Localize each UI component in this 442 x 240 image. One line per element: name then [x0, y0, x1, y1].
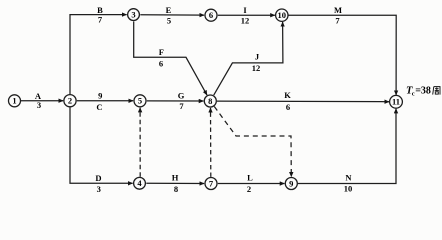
svg-text:8: 8 — [208, 96, 212, 106]
svg-text:M: M — [334, 5, 342, 15]
svg-text:N: N — [345, 173, 352, 183]
svg-text:C: C — [96, 102, 102, 112]
activity N arrow (9-11) — [298, 109, 396, 184]
activity E arrow (3-6) — [140, 14, 204, 16]
svg-text:H: H — [172, 173, 179, 183]
svg-text:10: 10 — [344, 183, 353, 193]
activity K arrow (8-11) — [217, 100, 389, 103]
svg-text:12: 12 — [252, 63, 261, 73]
dummy arrow 7-8 (dashed) — [210, 108, 212, 177]
svg-text:1: 1 — [12, 96, 16, 106]
annotation Tc=38 weeks — [406, 85, 440, 97]
dummy arrow 4-5 (dashed) — [139, 108, 141, 177]
svg-text:6: 6 — [209, 10, 213, 20]
dummy arrow 8-9 (dashed) — [214, 107, 291, 177]
node 10 — [276, 9, 288, 21]
activity M arrow (10-11) — [288, 15, 396, 95]
activity F arrow (3-8) — [134, 21, 207, 95]
svg-text:9: 9 — [289, 178, 293, 188]
node 1 — [9, 95, 21, 107]
hand-drawn CJK glyph zhou (week) — [433, 87, 440, 95]
svg-text:3: 3 — [131, 9, 135, 19]
svg-text:I: I — [243, 5, 247, 15]
svg-text:6: 6 — [286, 102, 290, 112]
activity C arrow (2-5) — [77, 100, 133, 102]
activity B arrow (2-3) — [70, 15, 127, 95]
node 6 — [205, 9, 217, 21]
svg-text:L: L — [247, 173, 253, 183]
svg-text:=38: =38 — [415, 85, 431, 96]
node 7 — [205, 178, 217, 190]
svg-text:7: 7 — [179, 101, 184, 111]
svg-text:2: 2 — [247, 184, 251, 194]
svg-text:8: 8 — [174, 184, 178, 194]
svg-text:9: 9 — [98, 91, 102, 101]
svg-text:11: 11 — [392, 97, 400, 107]
svg-text:3: 3 — [97, 184, 101, 194]
node 3 — [128, 9, 140, 21]
node 9 — [285, 178, 297, 190]
svg-text:G: G — [178, 91, 185, 101]
svg-text:10: 10 — [278, 10, 287, 20]
activity I arrow (6-10) — [218, 14, 275, 16]
activity H arrow (4-7) — [146, 182, 204, 184]
svg-text:7: 7 — [98, 15, 103, 25]
node 5 — [134, 95, 146, 107]
svg-text:D: D — [95, 173, 101, 183]
svg-text:F: F — [159, 47, 164, 57]
svg-text:12: 12 — [241, 16, 250, 26]
svg-text:2: 2 — [68, 96, 72, 106]
svg-text:J: J — [255, 52, 260, 62]
svg-text:5: 5 — [167, 16, 171, 26]
activity D arrow (2-4) — [70, 108, 133, 184]
node 2 — [64, 95, 76, 107]
svg-text:6: 6 — [159, 59, 163, 69]
svg-text:K: K — [284, 90, 291, 100]
svg-text:E: E — [166, 5, 172, 15]
activity G arrow (5-8) — [147, 100, 204, 102]
node 4 — [134, 177, 146, 189]
activity J arrow (8-10) — [214, 22, 283, 95]
node 11 — [390, 95, 403, 108]
node 8 — [204, 95, 216, 107]
svg-text:3: 3 — [37, 100, 41, 110]
svg-text:5: 5 — [138, 96, 142, 106]
svg-text:7: 7 — [335, 16, 340, 26]
activity A arrow (1-2) — [21, 100, 63, 102]
activity L arrow (7-9) — [218, 183, 285, 185]
svg-text:B: B — [97, 5, 103, 15]
